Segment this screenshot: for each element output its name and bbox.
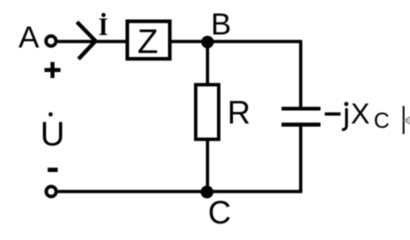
- bottom terminal: [46, 187, 56, 197]
- svg-text:U: U: [40, 116, 65, 154]
- capacitor label j: [342, 102, 349, 130]
- capacitor label minus dash: [325, 112, 341, 115]
- minus sign: [48, 168, 58, 172]
- svg-text:C: C: [374, 108, 390, 133]
- wire from Z to node B: [172, 40, 302, 43]
- wire from terminal A to Z: [58, 40, 126, 43]
- node B junction dot: [201, 36, 214, 49]
- bottom wire from terminal to node C: [58, 190, 207, 193]
- svg-text:A: A: [19, 20, 40, 55]
- capacitor C1 bottom plate: [282, 123, 321, 127]
- svg-text:B: B: [211, 8, 231, 42]
- svg-text:C: C: [208, 195, 231, 225]
- wire resistor R to node C: [206, 139, 209, 192]
- wire capacitor to bottom wire: [299, 127, 302, 192]
- svg-text:R: R: [227, 95, 250, 131]
- node C junction dot: [201, 186, 214, 199]
- svg-text:Z: Z: [137, 23, 158, 61]
- svg-text:I: I: [98, 14, 108, 41]
- right edge gray arrowhead: [405, 117, 410, 124]
- current arrow: [77, 22, 96, 59]
- plus sign: [45, 62, 61, 78]
- current label I-dot: [98, 13, 108, 41]
- wire node B to resistor R: [206, 42, 209, 84]
- wire top right corner down to capacitor: [299, 40, 302, 107]
- bottom wire node C to capacitor branch: [207, 190, 302, 193]
- capacitor C1 top plate: [282, 107, 321, 111]
- svg-text:X: X: [351, 99, 370, 131]
- resistor R body: [196, 85, 219, 140]
- impedance Z1 box: [127, 21, 170, 59]
- right edge cursor line: [403, 106, 405, 134]
- terminal A: [46, 36, 56, 46]
- voltage label U-dot: [40, 112, 65, 153]
